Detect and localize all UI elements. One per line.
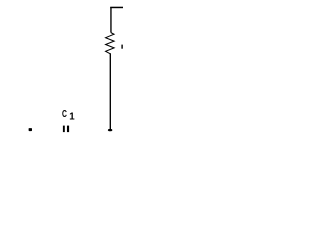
svg-text:1: 1 (69, 112, 75, 123)
node dot (left) (29, 128, 32, 131)
capacitor C1 plates (63, 126, 65, 133)
wire vertical lower lead (109, 53, 111, 129)
wire vertical upper lead (110, 7, 112, 33)
resistor R1 (106, 33, 115, 54)
junction dot (bottom of wire) (108, 129, 112, 131)
svg-text:C: C (62, 109, 67, 120)
wire top horizontal (110, 6, 123, 8)
label fragment (clipped at right edge) (121, 45, 122, 49)
